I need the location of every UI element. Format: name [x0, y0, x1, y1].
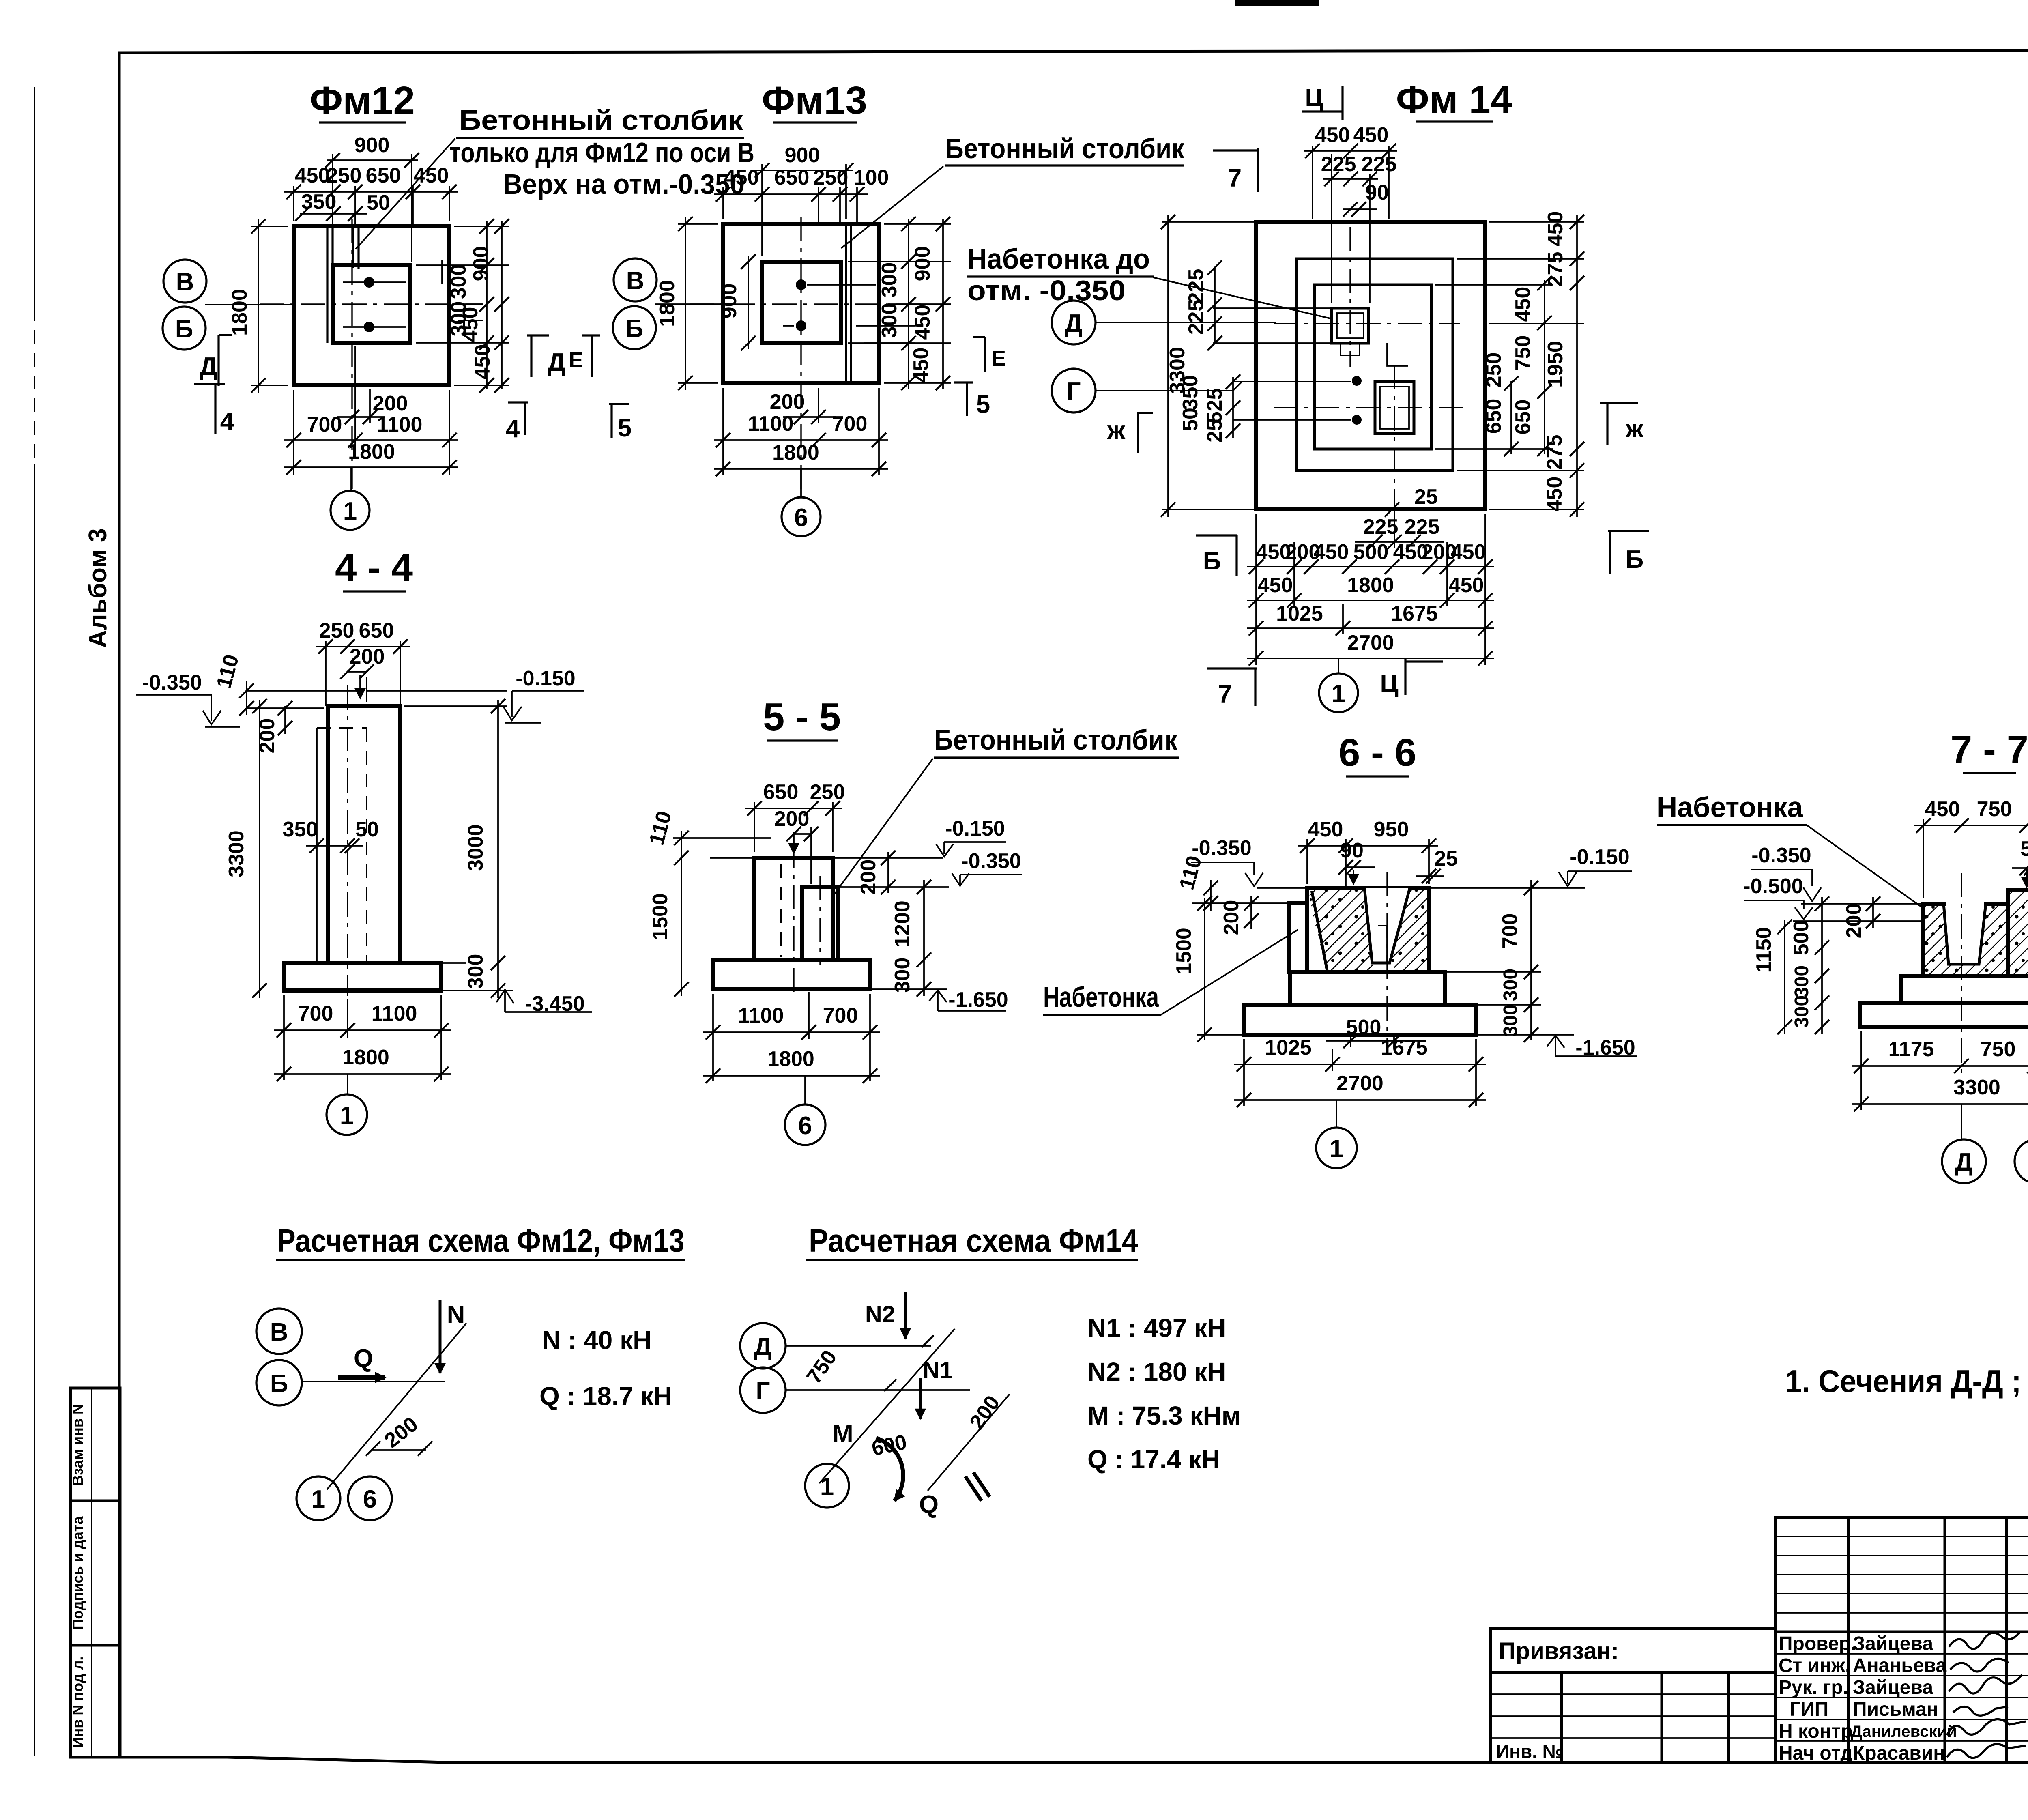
svg-text:450: 450 — [1315, 123, 1350, 147]
svg-text:5 - 5: 5 - 5 — [763, 695, 841, 739]
left paper fold line — [34, 87, 35, 307]
cup outline — [1944, 904, 1986, 964]
svg-text:700: 700 — [1498, 913, 1522, 949]
scheme 2 axis lines — [786, 1346, 970, 1390]
centerlines — [1961, 873, 2028, 1095]
svg-text:900: 900 — [354, 133, 390, 157]
svg-text:225: 225 — [1363, 515, 1399, 539]
dim 450 750 650 — [1923, 819, 2028, 898]
svg-text:2700: 2700 — [1347, 631, 1394, 655]
svg-text:200: 200 — [774, 807, 810, 831]
svg-text:500: 500 — [1790, 920, 1813, 956]
right dim lines — [848, 224, 951, 383]
svg-text:-0.350: -0.350 — [961, 849, 1021, 873]
svg-text:Расчетная схема Фм12, Фм13: Расчетная схема Фм12, Фм13 — [277, 1223, 685, 1259]
svg-text:200: 200 — [1842, 903, 1866, 939]
frame top line — [119, 49, 2028, 53]
bottom dim 2700 — [1247, 658, 1494, 659]
section mark 5 right — [954, 382, 973, 416]
axis circle 1 — [1319, 673, 1358, 712]
svg-text:450: 450 — [1308, 818, 1343, 841]
anchor dots — [364, 277, 374, 288]
svg-text:25: 25 — [1203, 419, 1227, 443]
svg-text:Набетонка до: Набетонка до — [967, 243, 1150, 275]
svg-text:450: 450 — [1544, 211, 1567, 247]
svg-text:Данилевский: Данилевский — [1851, 1723, 1957, 1740]
svg-text:525: 525 — [1203, 388, 1227, 423]
dims 225 225 — [1323, 178, 1378, 180]
top dims 450 450 — [1313, 146, 1389, 303]
svg-text:450: 450 — [1925, 797, 1960, 821]
hatched body — [1308, 889, 1375, 971]
bottom dim 1025 1675 — [1247, 627, 1494, 629]
svg-text:700: 700 — [832, 412, 868, 436]
svg-text:1: 1 — [312, 1485, 325, 1513]
scheme 2 axis Д — [740, 1323, 786, 1369]
svg-text:Бетонный столбик: Бетонный столбик — [934, 724, 1178, 756]
axis circle 6 bottom — [782, 497, 821, 536]
svg-text:Бетонный столбик: Бетонный столбик — [459, 104, 743, 136]
left level line 110 — [673, 837, 771, 839]
svg-text:-0.350: -0.350 — [142, 671, 202, 694]
svg-text:Q : 18.7 кН: Q : 18.7 кН — [539, 1382, 672, 1411]
svg-text:Верх на отм.-0.350: Верх на отм.-0.350 — [503, 168, 745, 200]
svg-text:300: 300 — [1791, 995, 1813, 1028]
svg-text:Q : 17.4 кН: Q : 17.4 кН — [1087, 1445, 1220, 1474]
svg-text:Альбом 3: Альбом 3 — [84, 528, 112, 648]
svg-text:200: 200 — [350, 645, 385, 668]
axis circle В — [614, 258, 657, 301]
svg-text:50: 50 — [1179, 408, 1202, 431]
svg-text:450: 450 — [1451, 540, 1486, 564]
anchor bolt arrow — [359, 675, 361, 698]
upper anchor box — [1332, 308, 1368, 343]
svg-text:1800: 1800 — [228, 289, 251, 336]
svg-text:225: 225 — [1362, 153, 1397, 176]
axis circle 6 — [785, 1104, 825, 1145]
svg-text:3000: 3000 — [464, 824, 488, 871]
svg-text:1200: 1200 — [891, 900, 914, 948]
anchor dots — [796, 279, 806, 290]
dim 450 950 — [1307, 839, 1429, 889]
svg-text:Инв. №: Инв. № — [1496, 1741, 1563, 1762]
svg-text:200: 200 — [373, 392, 408, 415]
svg-text:Ананьева: Ананьева — [1853, 1655, 1946, 1676]
svg-text:450: 450 — [295, 164, 330, 187]
section mark Е right — [973, 337, 985, 372]
svg-text:300: 300 — [878, 303, 901, 338]
svg-text:900: 900 — [785, 144, 820, 167]
leader — [1153, 277, 1330, 318]
svg-text:225: 225 — [1405, 515, 1440, 539]
dim 200 — [1872, 897, 1874, 928]
svg-text:650: 650 — [1482, 399, 1506, 434]
axis circle В — [163, 260, 206, 303]
svg-text:300: 300 — [1791, 965, 1813, 998]
outer square — [294, 226, 449, 385]
svg-text:Г: Г — [756, 1377, 770, 1405]
svg-text:1175: 1175 — [1888, 1038, 1934, 1061]
section mark Б left — [1196, 535, 1237, 576]
slab — [1244, 1005, 1476, 1035]
svg-text:3300: 3300 — [1953, 1076, 2000, 1099]
dim 1800 left — [251, 226, 288, 385]
leader — [841, 166, 943, 248]
step — [1901, 976, 2028, 1003]
svg-text:отм. -0.350: отм. -0.350 — [967, 275, 1126, 306]
svg-text:1500: 1500 — [1172, 928, 1196, 975]
svg-text:1800: 1800 — [655, 280, 679, 327]
svg-text:Зайцева: Зайцева — [1853, 1633, 1933, 1655]
svg-text:1150: 1150 — [1752, 927, 1776, 973]
svg-text:Б: Б — [625, 315, 644, 343]
svg-text:250: 250 — [813, 166, 849, 189]
footing — [713, 960, 870, 989]
ext lines top — [1257, 887, 1585, 889]
svg-text:700: 700 — [307, 413, 342, 436]
svg-text:225: 225 — [1184, 300, 1208, 335]
svg-text:200: 200 — [1220, 900, 1243, 935]
svg-text:1: 1 — [820, 1473, 834, 1501]
svg-text:6: 6 — [363, 1485, 377, 1513]
dim 900 inner left — [748, 256, 749, 349]
svg-text:Б: Б — [175, 315, 193, 343]
svg-text:В: В — [626, 267, 644, 295]
svg-text:450: 450 — [414, 164, 449, 187]
svg-text:4: 4 — [506, 415, 520, 443]
svg-text:4: 4 — [220, 408, 234, 436]
axis circle 1 — [1316, 1128, 1357, 1168]
svg-text:Инв N под л.: Инв N под л. — [69, 1657, 86, 1748]
axis line — [205, 304, 294, 305]
dim 1800 — [714, 468, 888, 470]
svg-text:500: 500 — [1353, 540, 1389, 564]
svg-text:-0.350: -0.350 — [1751, 844, 1811, 867]
dim row 350 50 — [300, 213, 367, 215]
svg-text:700: 700 — [823, 1004, 858, 1027]
svg-text:Е: Е — [991, 346, 1006, 371]
svg-text:Набетонка: Набетонка — [1657, 791, 1803, 823]
svg-text:N2: N2 — [865, 1301, 895, 1328]
section marks Д Е between plans — [527, 335, 549, 377]
scheme 1 force N — [439, 1300, 442, 1373]
svg-text:1675: 1675 — [1381, 1036, 1428, 1059]
left slant line — [1312, 892, 1327, 971]
scheme 1 axis circles 1 6 — [296, 1476, 340, 1520]
svg-text:1: 1 — [1330, 1135, 1343, 1163]
svg-text:В: В — [270, 1318, 288, 1346]
svg-text:7: 7 — [1228, 164, 1242, 192]
left wall — [1289, 903, 1307, 972]
svg-text:450: 450 — [911, 305, 935, 340]
frame left line — [118, 53, 121, 1757]
svg-text:450: 450 — [909, 348, 933, 383]
svg-text:Подпись и дата: Подпись и дата — [69, 1516, 86, 1630]
dim 250 650 top — [326, 641, 400, 706]
svg-text:350: 350 — [301, 190, 337, 214]
svg-text:450: 450 — [1449, 574, 1484, 597]
svg-text:Г: Г — [1066, 378, 1081, 406]
dim 1800 — [703, 1075, 880, 1077]
svg-text:3300: 3300 — [225, 830, 248, 877]
svg-text:650: 650 — [359, 619, 394, 642]
section mark 7 top left — [1213, 148, 1258, 192]
dim 1100 700 — [723, 388, 879, 475]
level -1.650 — [870, 988, 947, 990]
section mark 4 — [194, 384, 225, 434]
svg-text:М: М — [832, 1420, 853, 1448]
stolbik — [802, 887, 838, 960]
svg-text:5: 5 — [976, 391, 990, 419]
svg-text:-0.150: -0.150 — [1570, 845, 1629, 869]
slab — [1860, 1003, 2028, 1027]
scheme 1 diagonal axis — [327, 1323, 466, 1489]
svg-text:25: 25 — [1414, 485, 1438, 509]
svg-text:450: 450 — [1258, 574, 1293, 597]
svg-text:В: В — [176, 268, 194, 296]
svg-text:Фм13: Фм13 — [762, 79, 867, 122]
svg-text:Расчетная схема Фм14: Расчетная схема Фм14 — [809, 1223, 1138, 1259]
svg-text:-0.500: -0.500 — [1743, 875, 1803, 898]
outlines upper body — [1923, 890, 2028, 976]
centerlines — [1274, 323, 1460, 324]
column strip lines — [846, 224, 851, 383]
svg-text:Провер.: Провер. — [1779, 1633, 1856, 1655]
dim 350 50 — [306, 845, 363, 847]
dim 700 1100 — [284, 995, 441, 1080]
svg-text:1025: 1025 — [1265, 1036, 1312, 1059]
dims 500 300 300 left — [1821, 897, 1823, 1034]
svg-text:7: 7 — [1218, 680, 1232, 708]
signatures — [1949, 1631, 2021, 1649]
axis circle Г — [2015, 1139, 2028, 1183]
svg-text:300: 300 — [891, 958, 914, 993]
svg-text:1: 1 — [343, 497, 357, 525]
svg-text:750: 750 — [1981, 1038, 2016, 1061]
svg-text:Набетонка: Набетонка — [1043, 981, 1159, 1013]
centerlines — [260, 303, 483, 305]
svg-text:225: 225 — [1321, 153, 1356, 176]
svg-text:ГИП: ГИП — [1790, 1699, 1828, 1720]
svg-text:ж: ж — [1107, 417, 1126, 445]
axis line — [655, 303, 723, 305]
inner rect — [1315, 285, 1431, 449]
svg-text:-0.150: -0.150 — [516, 667, 575, 690]
leader — [834, 759, 933, 895]
svg-text:5: 5 — [618, 414, 632, 442]
svg-text:650: 650 — [1511, 400, 1535, 435]
svg-text:650: 650 — [774, 166, 810, 189]
svg-text:450: 450 — [1353, 123, 1389, 147]
svg-text:только для Фм12 по оси В: только для Фм12 по оси В — [449, 137, 754, 168]
thin horizontals left group — [1213, 308, 1351, 420]
dim 200 left — [284, 706, 286, 734]
bolt arrow — [1353, 870, 1354, 884]
svg-text:Q: Q — [919, 1491, 939, 1519]
scheme 2 diagonal axis — [819, 1329, 955, 1483]
svg-text:750: 750 — [1511, 335, 1535, 371]
svg-text:N1 : 497 кН: N1 : 497 кН — [1087, 1313, 1226, 1343]
axis circle 1 — [327, 1094, 367, 1135]
svg-text:900: 900 — [911, 246, 935, 281]
svg-text:1: 1 — [1332, 680, 1345, 708]
centerline — [1386, 872, 1388, 1049]
axis circle Д — [1942, 1139, 1986, 1183]
scheme 2 force N2 — [904, 1292, 907, 1339]
dim 650 250 — [754, 802, 833, 884]
axis circle 1 bottom — [331, 491, 370, 530]
inner square — [762, 262, 841, 343]
svg-text:1025: 1025 — [1276, 602, 1323, 625]
scheme 1 horizontal line — [302, 1381, 445, 1382]
svg-text:М : 75.3 кНм: М : 75.3 кНм — [1087, 1401, 1241, 1430]
svg-text:Н контр: Н контр — [1779, 1721, 1853, 1742]
svg-text:450: 450 — [471, 344, 494, 380]
lower anchor box — [1375, 382, 1414, 434]
sig table outer — [1775, 1517, 2028, 1762]
svg-text:1800: 1800 — [342, 1046, 389, 1069]
left small dims — [1214, 268, 1216, 343]
svg-text:Д: Д — [548, 348, 565, 376]
svg-text:N1: N1 — [923, 1357, 953, 1384]
svg-text:950: 950 — [1374, 818, 1409, 841]
left dim 3300 — [1162, 222, 1256, 509]
anchor dots — [1352, 376, 1362, 386]
svg-text:N : 40 кН: N : 40 кН — [542, 1326, 651, 1355]
cup — [1364, 888, 1410, 963]
svg-text:650: 650 — [366, 164, 401, 187]
bottom dim 450 1800 450 — [1247, 600, 1494, 601]
svg-text:-1.650: -1.650 — [948, 988, 1008, 1012]
column strip lines — [327, 226, 359, 343]
svg-text:250: 250 — [1482, 352, 1506, 388]
svg-text:250: 250 — [327, 164, 362, 187]
anchor bolts — [2026, 869, 2028, 887]
dims 1200 300 right — [923, 880, 925, 996]
svg-text:300: 300 — [878, 262, 901, 298]
centerline — [347, 685, 348, 996]
svg-text:450: 450 — [1314, 540, 1349, 564]
svg-text:N2 : 180 кН: N2 : 180 кН — [1087, 1357, 1226, 1386]
svg-text:Ст инж.: Ст инж. — [1779, 1655, 1850, 1676]
svg-text:1100: 1100 — [738, 1004, 784, 1027]
bottom dim 225 225 — [1355, 541, 1444, 543]
svg-text:6: 6 — [798, 1112, 812, 1140]
hatched right block — [2008, 890, 2028, 976]
dim 3300 — [1852, 1103, 2028, 1105]
svg-text:6 - 6: 6 - 6 — [1338, 731, 1416, 774]
axis circle Б — [163, 307, 206, 350]
svg-text:6: 6 — [794, 504, 808, 532]
sig table columns — [1848, 1517, 2007, 1762]
scheme 1 axis В — [256, 1309, 302, 1354]
svg-text:1100: 1100 — [372, 1002, 417, 1025]
dim row 450 250 650 450 — [294, 186, 449, 226]
inner square — [333, 265, 410, 343]
right outer dim line — [1576, 215, 1578, 517]
svg-text:Зайцева: Зайцева — [1853, 1677, 1933, 1698]
svg-text:Привязан:: Привязан: — [1499, 1638, 1619, 1664]
svg-text:300: 300 — [1500, 969, 1521, 1001]
frame bottom line — [119, 1757, 2028, 1762]
dim row 450 650 250 100 — [723, 187, 857, 224]
dim 1800 — [284, 466, 458, 468]
anchor slot — [1378, 926, 1387, 962]
right dim lines — [416, 226, 509, 385]
svg-text:Взам инв N: Взам инв N — [69, 1404, 86, 1486]
svg-text:200: 200 — [770, 390, 805, 414]
svg-text:350: 350 — [283, 818, 318, 841]
svg-text:1800: 1800 — [348, 440, 395, 464]
svg-text:50: 50 — [355, 818, 379, 841]
svg-text:Ц: Ц — [1380, 670, 1398, 698]
svg-text:275: 275 — [1543, 435, 1566, 470]
svg-text:450: 450 — [459, 307, 482, 342]
svg-text:450: 450 — [724, 166, 759, 189]
middle rect — [1296, 259, 1453, 471]
column — [328, 706, 400, 963]
step — [1290, 972, 1445, 1005]
axis circle Г left of Фм14 — [1052, 369, 1096, 413]
axis circle Б — [613, 306, 656, 349]
bolt dashed — [780, 864, 782, 957]
section mark 7 bottom — [1207, 668, 1257, 706]
svg-text:Ц: Ц — [1305, 84, 1323, 112]
scheme 2 axis circle 1 — [805, 1464, 849, 1508]
dim 200 right — [887, 852, 889, 893]
svg-text:1800: 1800 — [772, 441, 819, 464]
section mark 4 — [508, 402, 528, 435]
bottom dim row 450 200 450 500 450 200 450 — [1247, 566, 1494, 567]
svg-text:Фм 14: Фм 14 — [1396, 78, 1512, 121]
svg-text:900: 900 — [469, 246, 493, 281]
svg-text:350: 350 — [1179, 375, 1202, 410]
svg-text:100: 100 — [854, 166, 889, 189]
sig table rows lower — [1775, 1654, 2028, 1741]
svg-text:Фм12: Фм12 — [309, 79, 415, 122]
svg-text:450: 450 — [1543, 477, 1566, 512]
svg-text:1: 1 — [340, 1102, 354, 1130]
svg-text:50: 50 — [367, 191, 390, 215]
svg-text:300: 300 — [1500, 1004, 1521, 1037]
svg-text:Рук. гр.: Рук. гр. — [1779, 1677, 1848, 1698]
svg-text:300: 300 — [464, 954, 488, 989]
svg-text:1100: 1100 — [377, 413, 423, 436]
dim 900 top — [333, 154, 412, 262]
svg-text:Q: Q — [354, 1345, 373, 1373]
outer square — [723, 224, 879, 383]
dim 1025 1675 — [1244, 1039, 1476, 1106]
centerlines — [690, 303, 921, 305]
svg-text:25: 25 — [1434, 847, 1458, 870]
sig table rows upper — [1775, 1536, 2028, 1613]
svg-text:Красавин: Красавин — [1853, 1743, 1945, 1764]
dim 3000 right — [404, 706, 507, 963]
svg-text:250: 250 — [319, 619, 354, 642]
dim 2700 — [1234, 1099, 1486, 1101]
svg-text:450: 450 — [1511, 287, 1535, 322]
dim 1500 left — [1197, 898, 1244, 1040]
section mark Ц top — [1302, 86, 1343, 120]
section mark Ж right — [1600, 403, 1638, 445]
level line 110 — [247, 691, 360, 708]
hatched left block — [1923, 904, 2008, 976]
svg-text:300: 300 — [447, 264, 470, 299]
svg-text:Б: Б — [1203, 547, 1221, 575]
section mark Б right — [1608, 531, 1649, 574]
right ext lines — [833, 858, 949, 887]
svg-text:1950: 1950 — [1544, 341, 1567, 388]
